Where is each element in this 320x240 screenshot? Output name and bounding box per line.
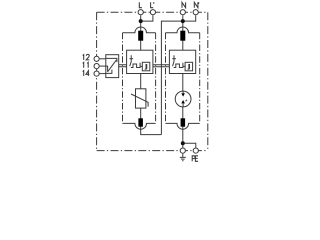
terminal L xyxy=(138,10,143,15)
label PE xyxy=(192,156,195,162)
terminal PE b xyxy=(193,148,198,153)
disconnector top N fuse body xyxy=(180,31,185,41)
wire L box to varistor xyxy=(140,74,142,89)
wire terminal 12 xyxy=(100,58,106,60)
terminal 11 xyxy=(94,64,99,69)
disconnector bottom N fuse body xyxy=(181,118,186,126)
module boundary left (dash-dot sides) xyxy=(123,33,156,124)
terminal N xyxy=(180,10,185,15)
label 11 xyxy=(83,62,84,67)
label L xyxy=(139,2,142,7)
disconnector bottom L fuse body xyxy=(138,118,143,126)
wire L' link xyxy=(141,15,153,21)
wire L-branch varistor to bottom corner xyxy=(141,108,162,135)
mechanical linkage L box to N box xyxy=(153,65,170,67)
terminal 12 xyxy=(94,56,99,61)
wire terminal 14 xyxy=(100,73,106,75)
module boundary right (dash-dot sides) xyxy=(166,33,200,124)
disconnector top L fuse body xyxy=(138,31,143,41)
disconnector top N (arc with stubs) xyxy=(166,27,200,33)
varistor xyxy=(131,89,148,108)
disconnector top L (arc with stubs) xyxy=(123,27,156,33)
wire N drop xyxy=(182,15,184,50)
spark gap box L xyxy=(127,50,153,73)
terminal PE a xyxy=(180,148,185,153)
label 12 xyxy=(83,55,84,60)
junction node N xyxy=(181,19,185,23)
label L' xyxy=(151,2,154,8)
junction node PE xyxy=(181,141,185,145)
label 14 xyxy=(83,71,84,76)
terminal 14 xyxy=(94,71,99,76)
wire gas discharge tube to PE junction xyxy=(182,107,184,143)
ground xyxy=(180,154,186,161)
wire cross-connect N to L-branch bottom xyxy=(161,21,182,135)
spark gap box N xyxy=(169,50,195,73)
gas discharge tube (spark gap in circle) xyxy=(175,91,191,107)
label N xyxy=(182,2,186,7)
wire L drop xyxy=(140,15,142,50)
wire N' link xyxy=(183,15,196,21)
disconnector bottom L (arc with stubs) xyxy=(123,123,156,129)
wire terminal 11 xyxy=(100,65,106,67)
disconnector bottom N (arc with stubs) xyxy=(166,123,200,129)
terminal L' xyxy=(150,10,155,15)
enclosure border (dash-dot) xyxy=(97,12,208,150)
terminal N' xyxy=(193,10,198,15)
wire N box to gas discharge tube xyxy=(182,74,184,92)
wire junction to PE terminal b xyxy=(183,143,196,147)
junction node L xyxy=(139,19,143,23)
wire junction to PE terminal a xyxy=(182,143,184,147)
remote signalling changeover switch xyxy=(106,55,119,78)
mechanical linkage switch to L box xyxy=(119,65,127,67)
label N' xyxy=(194,2,199,8)
